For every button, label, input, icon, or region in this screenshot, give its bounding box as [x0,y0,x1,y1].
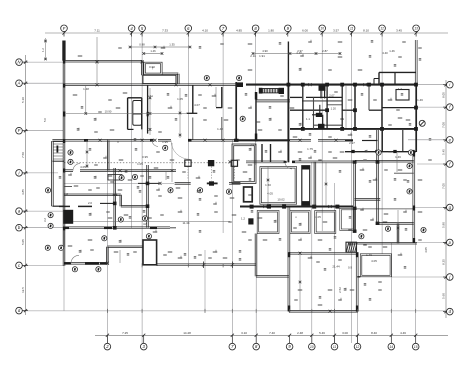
svg-text:1.2: 1.2 [241,216,245,220]
svg-text:3.57: 3.57 [333,29,339,33]
svg-text:2.48: 2.48 [297,331,303,335]
svg-text:6.00: 6.00 [302,29,308,33]
svg-text:3.2: 3.2 [43,218,47,222]
svg-text:4.10: 4.10 [202,29,208,33]
svg-text:5.60: 5.60 [441,293,445,299]
svg-text:1.91: 1.91 [259,54,265,58]
svg-text:5.05: 5.05 [21,239,25,245]
svg-text:1.95: 1.95 [162,140,168,144]
svg-text:7.05: 7.05 [441,183,445,189]
svg-text:4.85: 4.85 [236,29,242,33]
svg-text:21.44: 21.44 [332,265,340,269]
svg-text:1.2: 1.2 [398,87,402,91]
svg-text:1.46: 1.46 [389,49,395,53]
svg-text:0.90: 0.90 [149,65,155,69]
svg-text:1.46: 1.46 [150,49,156,53]
svg-text:8.40: 8.40 [371,331,377,335]
svg-text:1.20: 1.20 [331,106,337,110]
svg-text:10.90: 10.90 [105,109,112,113]
svg-text:0.95: 0.95 [142,155,148,159]
svg-text:4.46: 4.46 [400,331,406,335]
svg-text:1.46: 1.46 [395,155,401,159]
svg-text:2.87: 2.87 [322,49,328,53]
svg-text:A: A [17,81,21,86]
svg-text:7.33: 7.33 [162,29,168,33]
svg-text:7.40: 7.40 [269,331,275,335]
svg-text:4.8: 4.8 [143,222,147,226]
svg-text:3.10: 3.10 [241,331,247,335]
svg-text:4.40: 4.40 [382,51,388,55]
svg-text:1.80: 1.80 [268,29,274,33]
svg-text:1.46: 1.46 [417,98,423,102]
svg-text:10: 10 [320,26,324,30]
svg-text:15: 15 [414,345,418,349]
svg-text:12: 12 [380,26,384,30]
svg-text:7.25: 7.25 [122,331,128,335]
svg-text:5.46: 5.46 [319,331,325,335]
svg-text:8.05: 8.05 [441,92,445,98]
svg-text:2.11: 2.11 [250,54,256,58]
svg-text:5.10: 5.10 [21,97,25,103]
svg-text:2.97: 2.97 [297,49,303,53]
svg-text:1.1: 1.1 [306,117,310,121]
svg-text:14: 14 [390,345,394,349]
svg-text:11: 11 [350,26,354,30]
svg-text:4.05: 4.05 [315,215,321,219]
svg-text:1.35: 1.35 [169,43,175,47]
svg-text:4.07: 4.07 [194,103,200,107]
svg-text:2.52: 2.52 [338,287,342,293]
svg-text:3.00: 3.00 [342,331,348,335]
svg-text:4.05: 4.05 [424,247,428,253]
svg-text:7.00: 7.00 [441,122,445,128]
svg-text:12.5: 12.5 [21,287,25,293]
svg-text:2.07: 2.07 [329,94,335,98]
svg-text:2.0: 2.0 [88,201,92,205]
svg-text:1.2: 1.2 [64,192,68,196]
svg-text:F: F [63,26,66,31]
svg-text:4.90: 4.90 [262,49,268,53]
svg-text:8.10: 8.10 [363,29,369,33]
svg-text:2.97: 2.97 [250,143,256,147]
svg-text:1.05: 1.05 [137,162,143,166]
svg-text:12: 12 [356,345,360,349]
svg-text:1.48: 1.48 [83,87,89,91]
svg-text:1.46: 1.46 [366,253,372,257]
svg-text:1.2: 1.2 [41,48,45,52]
svg-text:8.25: 8.25 [441,259,445,265]
svg-text:0.9: 0.9 [348,266,352,270]
svg-text:F: F [18,128,21,133]
svg-text:7.50: 7.50 [21,152,25,158]
svg-text:4.05: 4.05 [371,259,377,263]
svg-text:5.45: 5.45 [441,149,445,155]
svg-text:10.02: 10.02 [277,198,285,202]
svg-text:1.48: 1.48 [217,127,223,131]
svg-text:7.11: 7.11 [94,29,100,33]
svg-text:3.85: 3.85 [21,189,25,195]
svg-text:11.44: 11.44 [182,221,189,225]
svg-text:1.75: 1.75 [307,147,313,151]
svg-text:5.80: 5.80 [441,222,445,228]
svg-text:2.97: 2.97 [349,141,355,145]
svg-text:11: 11 [333,345,337,349]
svg-text:4.05: 4.05 [80,165,86,169]
svg-text:14.48: 14.48 [183,331,191,335]
svg-text:10: 10 [310,345,314,349]
svg-text:13: 13 [414,26,418,30]
svg-text:3.45: 3.45 [396,29,402,33]
svg-text:0.9: 0.9 [340,117,344,121]
svg-text:5.0: 5.0 [43,118,47,122]
svg-text:0.98: 0.98 [139,43,145,47]
